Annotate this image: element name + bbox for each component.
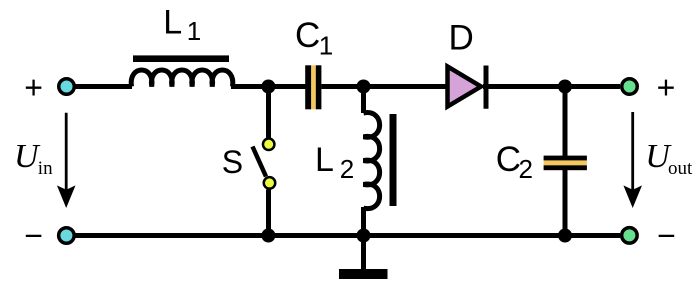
node junction top-L2 <box>357 80 371 94</box>
capacitor C1 <box>305 65 321 109</box>
node output - terminal <box>622 228 638 244</box>
node junction top-C2 <box>558 80 572 94</box>
wire C2 bottom lead <box>563 169 568 237</box>
switch S <box>253 139 276 189</box>
svg-text:1: 1 <box>187 16 201 46</box>
label C2 <box>496 140 533 184</box>
wire ground stub <box>361 235 366 270</box>
arrow Uout <box>623 112 642 208</box>
inductor L1 <box>131 55 233 86</box>
ground <box>339 269 388 279</box>
label L1 <box>163 3 201 46</box>
label Uin <box>14 138 53 179</box>
capacitor C2 <box>544 156 587 171</box>
svg-text:+: + <box>657 70 676 106</box>
node input + terminal <box>59 79 75 95</box>
svg-text:+: + <box>24 70 43 106</box>
label C1 <box>295 16 333 60</box>
node junction bottom-L2 <box>357 229 371 243</box>
svg-text:S: S <box>222 144 243 180</box>
svg-text:D: D <box>449 19 474 58</box>
wire top rail between C1 and diode <box>321 84 447 89</box>
svg-text:out: out <box>668 158 693 179</box>
wire C2 top lead <box>563 84 568 157</box>
label L2 <box>315 141 354 184</box>
node output + terminal <box>622 79 638 95</box>
svg-text:2: 2 <box>519 154 533 184</box>
svg-text:L: L <box>163 3 182 41</box>
diode D <box>448 66 487 109</box>
svg-text:2: 2 <box>340 154 354 184</box>
svg-text:−: − <box>24 217 43 253</box>
wire L2 top lead <box>361 84 366 113</box>
arrow Uin <box>57 113 76 208</box>
wire top rail between L1 and C1 <box>231 84 306 89</box>
wire L2 bottom lead <box>361 207 366 237</box>
svg-text:1: 1 <box>319 30 333 60</box>
wire switch top lead <box>266 84 271 138</box>
svg-text:L: L <box>315 141 334 179</box>
svg-text:−: − <box>657 217 676 253</box>
svg-text:C: C <box>496 140 521 179</box>
svg-text:in: in <box>38 158 53 179</box>
wire top rail left segment <box>74 84 132 89</box>
node junction bottom-switch <box>261 229 275 243</box>
wire top rail right segment <box>483 84 620 89</box>
node input - terminal <box>59 228 75 244</box>
svg-text:C: C <box>295 16 320 55</box>
node junction bottom-C2 <box>558 229 572 243</box>
node junction top-switch <box>261 80 275 94</box>
wire bottom rail <box>74 233 620 238</box>
label Uout <box>645 138 693 179</box>
wire switch bottom lead <box>266 190 271 238</box>
inductor L2 <box>364 113 397 209</box>
